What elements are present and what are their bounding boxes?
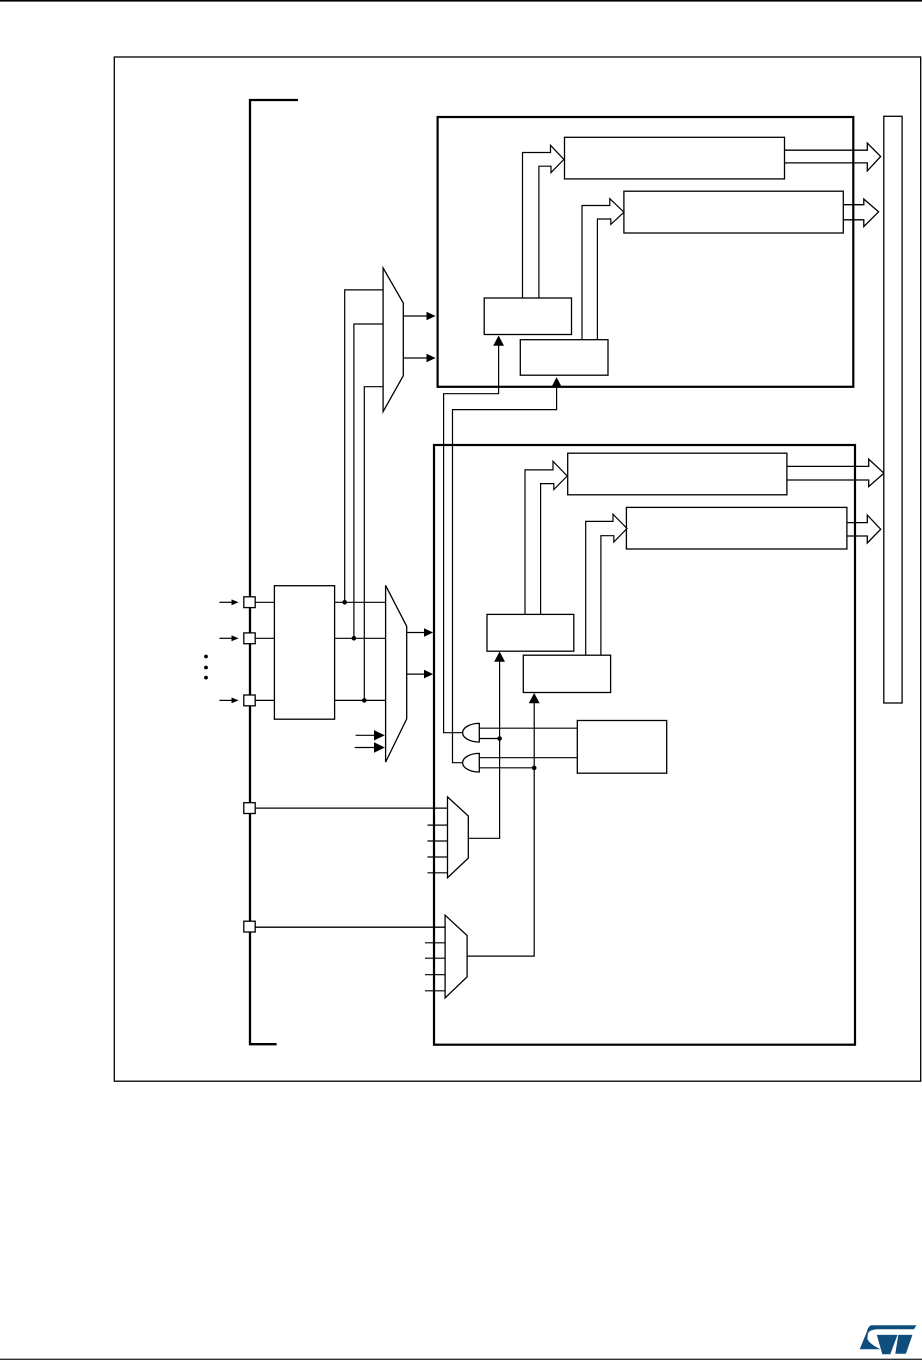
trigger input arrow 1 to mux M2 bbox=[356, 730, 385, 740]
hollow bus arrow from register A2 bbox=[843, 199, 878, 227]
wire box T to gate G2 upper input bbox=[479, 757, 577, 759]
arrowhead W2 into box A-2 bbox=[551, 377, 562, 387]
pin bus bracket bbox=[250, 100, 298, 1044]
mux M3 input stub 4 bbox=[428, 856, 448, 858]
page footer rule bbox=[0, 1359, 922, 1360]
ribbon arrow box A-2 to register A2 bbox=[582, 199, 624, 340]
mux M4 input stub 3 bbox=[425, 957, 445, 959]
wire gate G1 lower input from junction bbox=[479, 738, 499, 740]
wire ED out row1 to mux M2 bbox=[335, 601, 386, 603]
wire box T to gate G1 upper input bbox=[479, 727, 577, 729]
pin square P3 bbox=[244, 695, 255, 706]
block A thick border bbox=[438, 117, 854, 387]
mux M4 trapezoid bbox=[445, 915, 467, 998]
arrowhead W1 into box A-1 bbox=[493, 336, 504, 346]
mux M4 input stub 2 bbox=[425, 942, 445, 944]
ST logo bbox=[860, 1325, 917, 1354]
wire riser row3 to mux M1 input 3 bbox=[364, 387, 383, 701]
wire pin1 to edge-detector box bbox=[255, 601, 274, 603]
wire mux M4 output to box B-2 bbox=[467, 702, 534, 956]
wire pin3 to edge-detector box bbox=[255, 699, 274, 701]
input arrow to pin 3 bbox=[219, 698, 238, 704]
mux M1 output arrow 2 into block A bbox=[403, 354, 435, 363]
junction dot on B-1 riser bbox=[497, 736, 502, 741]
mux M1 trapezoid bbox=[383, 268, 403, 412]
junction dot on B-2 riser bbox=[532, 766, 537, 771]
wire riser row1 to mux M1 input 1 bbox=[345, 290, 383, 602]
input arrow to pin 1 bbox=[219, 599, 238, 605]
junction dot row3 bbox=[362, 698, 367, 703]
gate G2 bbox=[463, 753, 480, 772]
register B1 bbox=[568, 453, 787, 495]
box B-1 bbox=[487, 614, 574, 651]
mux M2 output arrow 1 into block B bbox=[407, 628, 433, 637]
box B-2 bbox=[523, 655, 610, 692]
ribbon arrow box B-1 to register B1 bbox=[525, 461, 567, 614]
ellipsis dots bbox=[204, 655, 208, 680]
wire W1 gate G1 output to box A-1 bbox=[444, 345, 499, 733]
wire gate G2 lower input from junction bbox=[479, 767, 534, 769]
wire pin4 to mux M3 input 1 bbox=[255, 807, 447, 809]
wire mux M3 output to box B-1 bbox=[468, 661, 499, 838]
wire W2 gate G2 output to box A-2 bbox=[453, 387, 557, 763]
mux M1 output arrow 1 into block A bbox=[403, 312, 435, 321]
junction dot row1 bbox=[342, 600, 347, 605]
junction dot row2 bbox=[352, 636, 357, 641]
register B2 bbox=[626, 507, 847, 549]
wire ED out row3 to mux M2 bbox=[335, 699, 386, 701]
figure outer frame bbox=[114, 57, 920, 1081]
block B thick border bbox=[434, 445, 855, 1045]
gate G1 bbox=[463, 723, 480, 742]
wire ED out row2 to mux M2 bbox=[335, 637, 386, 639]
mux M2 output arrow 2 into block B bbox=[407, 670, 433, 679]
box A-1 bbox=[484, 298, 571, 335]
mux M2 trapezoid bbox=[386, 585, 407, 762]
pin square P5 bbox=[244, 921, 255, 932]
input arrow to pin 2 bbox=[219, 635, 238, 641]
bus rectangle bbox=[884, 116, 902, 703]
mux M3 input stub 5 bbox=[428, 872, 448, 874]
arrowhead into box B-1 bbox=[494, 652, 505, 662]
wire riser row2 to mux M1 input 2 bbox=[354, 324, 383, 638]
pin square P1 bbox=[244, 597, 255, 608]
mux M3 input stub 2 bbox=[428, 824, 448, 826]
hollow bus arrow from register B2 bbox=[847, 515, 881, 543]
hollow bus arrow from register B1 bbox=[787, 459, 884, 487]
trigger input arrow 2 to mux M2 bbox=[355, 742, 385, 752]
register A1 bbox=[565, 137, 785, 179]
wire pin2 to edge-detector box bbox=[255, 637, 274, 639]
ribbon arrow box A-1 to register A1 bbox=[523, 145, 564, 298]
register A2 bbox=[624, 191, 843, 233]
box T trigger controller bbox=[577, 721, 666, 774]
box A-2 bbox=[520, 340, 608, 376]
pin square P2 bbox=[244, 633, 255, 644]
edge detector box ED bbox=[274, 586, 334, 720]
arrowhead into box B-2 bbox=[529, 693, 540, 703]
mux M3 input stub 3 bbox=[428, 840, 448, 842]
page header rule bbox=[0, 0, 922, 2]
mux M4 input stub 5 bbox=[425, 990, 445, 992]
ribbon arrow box B-2 to register B2 bbox=[586, 514, 627, 655]
mux M3 trapezoid bbox=[448, 797, 469, 878]
wire pin5 to mux M4 input 1 bbox=[255, 926, 446, 928]
pin square P4 bbox=[244, 803, 255, 814]
mux M4 input stub 4 bbox=[425, 974, 445, 976]
hollow bus arrow from register A1 bbox=[785, 143, 881, 171]
